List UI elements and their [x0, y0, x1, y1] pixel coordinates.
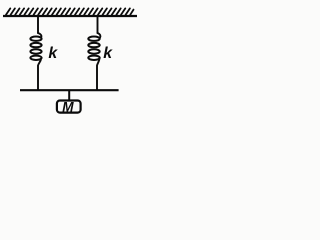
svg-text:k: k: [103, 45, 113, 62]
hanger stub to mass: [68, 91, 70, 100]
ceiling line: [3, 15, 137, 17]
left spring K1: top hook: [38, 33, 41, 38]
right hanger wire: [97, 17, 99, 33]
svg-text:k: k: [48, 45, 58, 62]
right spring K2: coil loops: [88, 37, 99, 61]
right spring K2: bottom exit wire: [97, 59, 99, 90]
left spring K1: coil loops: [30, 37, 41, 61]
left hanger wire: [37, 17, 39, 33]
bottom bar: [20, 89, 119, 91]
right spring K2: top hook: [98, 33, 101, 38]
svg-text:M: M: [62, 99, 74, 114]
mass box M: [57, 101, 81, 113]
left spring K1: bottom exit wire: [38, 59, 41, 90]
ceiling hatching: [6, 8, 134, 14]
